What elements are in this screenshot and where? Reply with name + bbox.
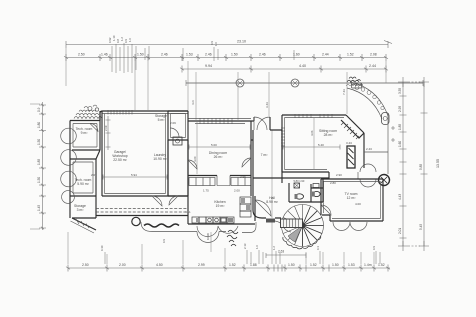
dining-kitchen divider xyxy=(188,175,251,177)
tech9 door arc xyxy=(90,124,98,132)
svg-text:2.08: 2.08 xyxy=(370,53,377,57)
wc toilet right xyxy=(313,191,320,196)
svg-text:2.99: 2.99 xyxy=(198,263,205,267)
kitchen counter east strip xyxy=(240,197,251,217)
svg-text:1.0: 1.0 xyxy=(214,42,218,46)
top guide verticals xyxy=(66,48,386,120)
kitchen counter bottom row xyxy=(192,217,234,223)
svg-text:1.52: 1.52 xyxy=(378,263,385,267)
storage 3 walls xyxy=(70,196,96,218)
hedge squiggle top-left xyxy=(74,105,102,119)
dining room top wall xyxy=(188,120,251,122)
svg-text:1.0: 1.0 xyxy=(255,245,259,249)
svg-text:1.53: 1.53 xyxy=(348,263,355,267)
svg-text:22.50 m²: 22.50 m² xyxy=(113,158,127,162)
svg-text:2.50: 2.50 xyxy=(82,263,89,267)
svg-text:5.45: 5.45 xyxy=(419,224,423,230)
chimney dark column xyxy=(347,146,355,168)
right dimension line 2 xyxy=(408,77,429,251)
kitchen top counter band xyxy=(189,176,251,186)
curved planter top right xyxy=(346,77,389,125)
entry S-curve wall to stair bay xyxy=(275,221,291,232)
svg-text:9.94: 9.94 xyxy=(205,64,212,68)
svg-text:1.75: 1.75 xyxy=(203,189,209,193)
sitting top window hatch xyxy=(295,114,332,118)
storage5 door arc xyxy=(170,128,179,137)
hall south curved wall to stair xyxy=(253,178,281,218)
small plus marks right of sitting xyxy=(391,126,395,142)
svg-text:1.80: 1.80 xyxy=(37,122,41,128)
spiral staircase xyxy=(282,205,324,247)
svg-text:12 m²: 12 m² xyxy=(347,196,357,200)
terrace plants dark xyxy=(227,230,238,246)
TV room walls xyxy=(321,179,383,221)
sitting room walls xyxy=(282,115,346,179)
stair dark step wedge xyxy=(288,226,303,243)
svg-text:2.09: 2.09 xyxy=(170,121,176,125)
entry door from hall xyxy=(255,200,271,216)
svg-text:1.50: 1.50 xyxy=(137,53,144,57)
svg-text:1.46: 1.46 xyxy=(101,53,108,57)
svg-text:1.52: 1.52 xyxy=(229,263,236,267)
top third dimension row 9.94 / 4.40 / 2.44 xyxy=(180,64,388,73)
svg-text:5.85: 5.85 xyxy=(419,164,423,170)
laundry sink xyxy=(173,137,182,145)
svg-text:0.30: 0.30 xyxy=(100,245,104,251)
tv room door arc xyxy=(321,205,331,215)
svg-text:1.52: 1.52 xyxy=(347,53,354,57)
room labels xyxy=(74,114,358,212)
svg-text:2.09: 2.09 xyxy=(104,125,108,131)
svg-text:0.3: 0.3 xyxy=(316,246,320,250)
svg-text:3.43: 3.43 xyxy=(265,102,269,108)
garage left interior dim xyxy=(106,116,111,150)
tech room 5.90 walls xyxy=(70,159,96,196)
svg-text:8.90 m²: 8.90 m² xyxy=(266,200,278,204)
divider tech rooms xyxy=(70,150,100,159)
svg-text:1.85: 1.85 xyxy=(37,159,41,165)
svg-text:9 m²: 9 m² xyxy=(81,131,89,135)
svg-text:1.4m: 1.4m xyxy=(364,263,372,267)
svg-text:4.11: 4.11 xyxy=(185,210,191,214)
dining internal dim line xyxy=(189,145,250,150)
svg-text:2.95: 2.95 xyxy=(398,106,402,112)
wc toilet left xyxy=(296,194,304,199)
interior door arcs xyxy=(152,196,162,206)
bay arcs between sitting and TV room xyxy=(358,164,376,187)
svg-text:1.85: 1.85 xyxy=(398,124,402,130)
svg-text:2.13: 2.13 xyxy=(243,243,247,249)
right garden wall xyxy=(387,113,389,174)
svg-text:7 m²: 7 m² xyxy=(261,153,269,157)
site boundary line with trees xyxy=(186,79,423,87)
diagonal cut bottom-left xyxy=(72,218,96,230)
svg-text:1.52: 1.52 xyxy=(310,263,317,267)
svg-text:4.43: 4.43 xyxy=(398,194,402,200)
left outer guide short xyxy=(30,104,40,229)
svg-text:2.44: 2.44 xyxy=(369,64,376,68)
dark tree circle at TV corner xyxy=(379,175,390,186)
svg-text:1.50: 1.50 xyxy=(37,139,41,145)
vestibule entry doors top xyxy=(251,117,254,121)
svg-text:4.66: 4.66 xyxy=(310,130,314,136)
svg-text:2.00: 2.00 xyxy=(234,189,240,193)
dining window hatch xyxy=(200,118,232,124)
scattered small dimension labels inside plan xyxy=(91,121,372,214)
garage window hatch xyxy=(108,110,132,115)
svg-text:7.43: 7.43 xyxy=(342,89,346,95)
dark tree circle south-west xyxy=(132,217,140,225)
svg-text:4.50: 4.50 xyxy=(156,263,163,267)
bottom small vertical dim clusters xyxy=(105,250,380,264)
boiler box xyxy=(281,219,303,228)
svg-text:2.43: 2.43 xyxy=(366,147,372,151)
svg-text:1.50: 1.50 xyxy=(231,53,238,57)
svg-text:3 m²: 3 m² xyxy=(77,208,85,212)
stair scalloped outer edge xyxy=(283,236,321,249)
laundry walls xyxy=(168,140,188,196)
svg-text:28 m²: 28 m² xyxy=(324,133,334,137)
svg-text:2.01: 2.01 xyxy=(398,228,402,234)
sitting window hatch left xyxy=(281,128,285,146)
terrace wall south of kitchen xyxy=(141,222,256,243)
svg-text:1.50: 1.50 xyxy=(288,263,295,267)
svg-text:4.00: 4.00 xyxy=(355,202,361,206)
hall and wc walls xyxy=(253,178,329,202)
svg-text:19 m²: 19 m² xyxy=(216,204,226,208)
svg-text:13.55: 13.55 xyxy=(436,159,440,168)
svg-text:2.46: 2.46 xyxy=(161,53,168,57)
main top wall garage section xyxy=(100,111,188,121)
svg-text:10.90 m²: 10.90 m² xyxy=(153,157,167,161)
svg-text:1.50: 1.50 xyxy=(332,263,339,267)
svg-text:5.90 m²: 5.90 m² xyxy=(77,182,89,186)
top small vertical dims cluster xyxy=(112,43,294,73)
arcs below TV room xyxy=(333,222,367,231)
svg-text:0.9: 0.9 xyxy=(37,107,41,112)
sitting east outer wall xyxy=(363,133,365,168)
svg-text:1.60: 1.60 xyxy=(398,141,402,147)
left dimension line xyxy=(37,102,46,230)
svg-text:0.9: 0.9 xyxy=(162,239,166,243)
svg-text:3.43: 3.43 xyxy=(346,141,352,145)
svg-text:2.07: 2.07 xyxy=(91,173,97,177)
svg-text:3.55: 3.55 xyxy=(398,88,402,94)
svg-text:2.90: 2.90 xyxy=(336,173,342,177)
corridor south wall xyxy=(96,215,188,217)
dark hedge wavy line xyxy=(144,224,179,227)
svg-text:4 m: 4 m xyxy=(191,99,195,105)
svg-text:10.30: 10.30 xyxy=(206,233,210,240)
bottom guide verticals xyxy=(68,130,374,264)
storage 5 walls xyxy=(168,111,188,140)
wc sink right xyxy=(313,184,319,188)
svg-text:2.00: 2.00 xyxy=(119,263,126,267)
svg-text:2.80: 2.80 xyxy=(330,181,336,185)
7m2 room walls xyxy=(251,130,282,178)
svg-text:5.00: 5.00 xyxy=(211,143,217,147)
svg-text:1.50: 1.50 xyxy=(37,177,41,183)
svg-text:5.80 1.90: 5.80 1.90 xyxy=(294,179,305,183)
top overall dimension line 23.10 xyxy=(66,40,392,49)
svg-text:2.63: 2.63 xyxy=(278,250,284,254)
garage room walls xyxy=(102,111,188,196)
wc sink left xyxy=(294,183,300,188)
dining east wall xyxy=(188,111,251,175)
svg-text:26 m²: 26 m² xyxy=(214,155,224,159)
svg-text:23.10: 23.10 xyxy=(237,40,246,44)
svg-text:2.46: 2.46 xyxy=(205,53,212,57)
svg-text:1.53: 1.53 xyxy=(186,53,193,57)
sitting internal dim line xyxy=(283,145,340,150)
top detail dimension line xyxy=(64,53,388,62)
kitchen walls xyxy=(188,175,255,224)
tech room 9 walls xyxy=(70,111,100,150)
svg-text:4.60: 4.60 xyxy=(193,156,197,162)
terrace division line xyxy=(364,151,388,153)
svg-text:5.94: 5.94 xyxy=(131,173,137,177)
svg-text:2.96: 2.96 xyxy=(240,175,246,179)
kitchen terrace arcs xyxy=(197,226,238,237)
svg-text:0.9: 0.9 xyxy=(372,246,376,250)
svg-text:2.50: 2.50 xyxy=(78,53,85,57)
garage internal dim line xyxy=(103,175,167,180)
svg-text:2.46: 2.46 xyxy=(259,53,266,57)
svg-text:1.0: 1.0 xyxy=(128,38,132,42)
left wall bay arcs xyxy=(61,128,77,144)
svg-text:2.44: 2.44 xyxy=(322,53,329,57)
svg-text:4.40: 4.40 xyxy=(299,64,306,68)
bottom dimension line xyxy=(66,263,390,272)
svg-text:5 m²: 5 m² xyxy=(158,118,166,122)
svg-text:1.2: 1.2 xyxy=(272,246,276,250)
svg-text:5.40: 5.40 xyxy=(318,143,324,147)
svg-text:1.45: 1.45 xyxy=(37,205,41,211)
right dimension line 1 xyxy=(398,77,408,251)
fireplace diagonal with hatch xyxy=(346,115,364,133)
